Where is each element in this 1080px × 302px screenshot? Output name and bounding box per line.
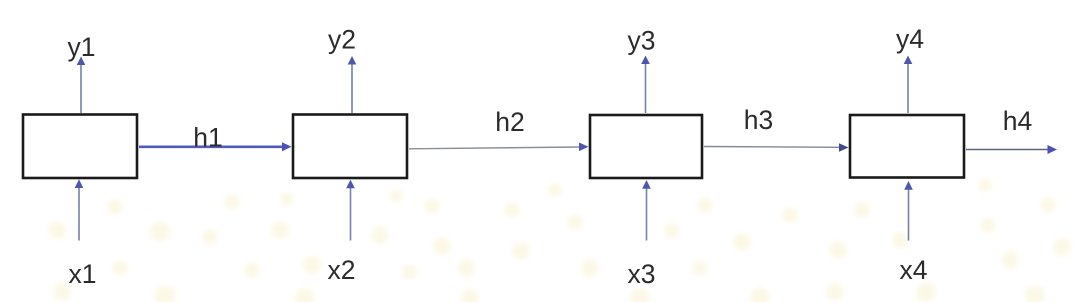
background speckles — [0, 0, 1, 1]
svg-text:x2: x2 — [328, 255, 356, 285]
box cell3 — [590, 115, 702, 178]
svg-text:y2: y2 — [328, 24, 356, 54]
wire x2 arrow — [346, 180, 355, 241]
svg-text:y4: y4 — [896, 24, 924, 54]
box cell2 — [293, 115, 407, 179]
wire y2 arrow — [348, 56, 357, 113]
wire x3 arrow — [642, 180, 651, 241]
svg-text:x3: x3 — [628, 259, 656, 289]
wire x4 arrow — [904, 181, 913, 241]
svg-text:x1: x1 — [69, 259, 97, 289]
wire x1 arrow — [75, 179, 84, 240]
svg-text:h1: h1 — [193, 123, 222, 153]
wire y4 arrow — [904, 56, 913, 114]
wire y3 arrow — [641, 56, 650, 114]
box cell1 — [23, 115, 137, 179]
svg-text:h3: h3 — [744, 105, 773, 135]
svg-text:y1: y1 — [68, 32, 96, 62]
wire h4 arrow — [966, 145, 1057, 154]
svg-text:h2: h2 — [495, 107, 524, 137]
wire h3 arrow — [704, 143, 849, 152]
box cell4 — [850, 115, 964, 178]
wire y1 arrow — [77, 57, 86, 114]
svg-text:y3: y3 — [628, 25, 656, 55]
svg-text:x4: x4 — [900, 255, 928, 285]
svg-text:h4: h4 — [1003, 106, 1032, 136]
wire h1 arrow — [139, 142, 292, 151]
wire h2 arrow — [409, 143, 589, 152]
